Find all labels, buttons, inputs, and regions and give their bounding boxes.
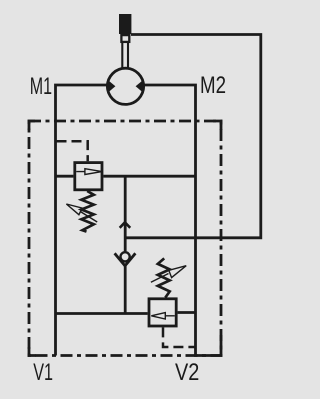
wire: M1 port line (left) [56, 85, 107, 356]
RV1 adjustment arrow (thin diagonal, open head up-left) [66, 204, 97, 222]
motor triangle right (filled, pointing inward) [136, 80, 145, 93]
RV2 spring (zigzag above square) [158, 258, 170, 297]
motor shaft coupling: small open rectangle [121, 35, 129, 42]
relief valve RV2: square body [149, 299, 176, 326]
check valve CV1: seat (V) [115, 253, 136, 265]
enclosure box corner ticks [29, 121, 221, 356]
motor shaft: double line [122, 43, 128, 69]
RV1 internal flow arrow (open triangle pointing right) [76, 169, 102, 175]
RV2 pilot line (dashed) [163, 327, 196, 347]
RV2 adjustment arrow (thin diagonal, open head up-right) [151, 266, 186, 283]
svg-text:V2: V2 [175, 359, 199, 386]
enclosure box (valve body, dash-dot) [29, 121, 221, 356]
wire: bottom rail from V1 line to RV2 [56, 312, 148, 315]
wire: below check valve to bottom rail [124, 265, 127, 314]
relief valve RV1: square body [75, 163, 102, 190]
RV1 spring (zigzag below square) [81, 191, 93, 232]
RV1 pilot line (dashed) [57, 141, 88, 161]
svg-text:M2: M2 [200, 72, 226, 99]
motor triangle left (filled, pointing inward) [106, 80, 115, 93]
wire: M2 port line (right) [145, 85, 196, 356]
flow arrowhead (up) on branch [120, 222, 131, 228]
svg-text:V1: V1 [33, 359, 53, 386]
RV2 internal flow arrow (open triangle pointing left) [151, 313, 175, 319]
hydraulic motor U1: circle [107, 68, 143, 104]
wire: case drain line from shaft to M2 line [125, 35, 261, 238]
wire: branch from RV1 output down (check valve branch) [124, 176, 127, 251]
wire: relief valve RV1 output line (valve to M2 line) [56, 175, 196, 178]
check valve CV1: ball [121, 252, 130, 261]
motor shaft end: filled black rectangle [119, 14, 131, 34]
wire: RV2 output stub to M2 line [178, 311, 196, 314]
svg-text:M1: M1 [30, 73, 52, 100]
